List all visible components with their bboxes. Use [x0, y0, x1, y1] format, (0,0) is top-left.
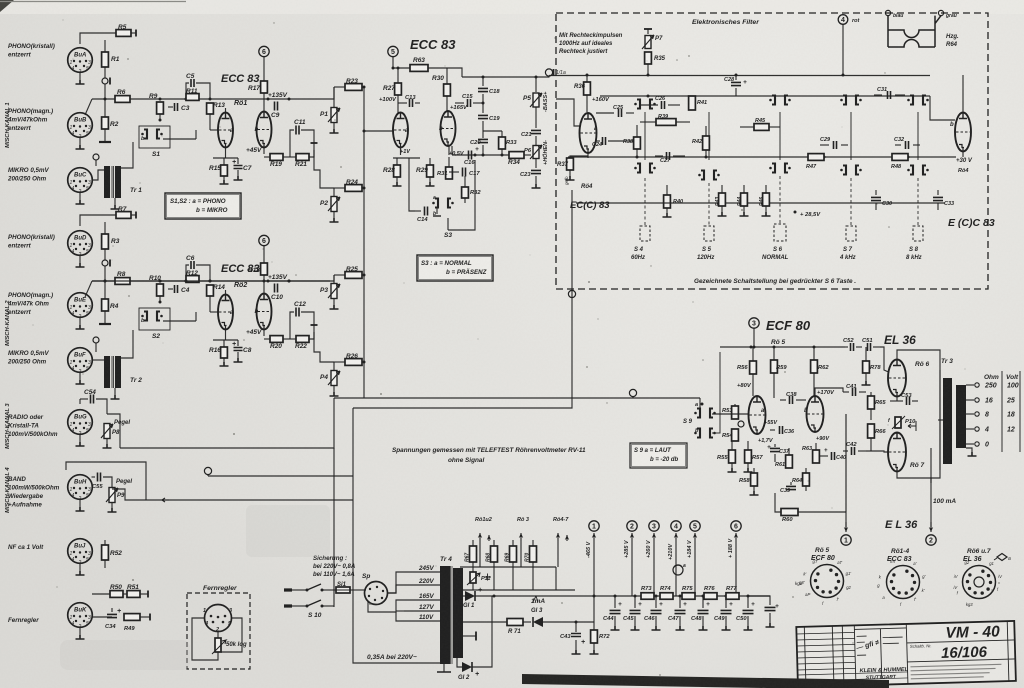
resistor R49: [124, 614, 140, 621]
heater resistors R67-R70: [472, 540, 474, 546]
bottom black bar: [522, 674, 889, 688]
resistor R55: [731, 441, 733, 450]
wire ch1 line to P1: [330, 87, 334, 99]
resistor R38: [634, 137, 641, 149]
EL36 upper tube: [888, 360, 906, 397]
wire S10 drop: [333, 448, 335, 607]
ground of BuA: [79, 72, 81, 81]
capacitor C30: [875, 190, 877, 195]
connector shield node ch2: [93, 337, 99, 343]
resistor R24: [334, 187, 345, 189]
resistor R60: [781, 509, 798, 516]
switch S6 dashed box: [774, 224, 786, 241]
wire ch2 C12 to P4: [314, 332, 334, 362]
half winding stub: [461, 635, 476, 637]
potentiometer P3: [333, 275, 335, 283]
ground of BuH: [79, 499, 81, 508]
supply arrow 5: [388, 46, 398, 56]
capacitor C42: [843, 450, 848, 452]
switch S2 box: [139, 308, 170, 330]
resistor R46: [765, 185, 767, 193]
anode tube a wire ch2: [225, 290, 227, 294]
main B+ rail: [475, 595, 770, 597]
filter rail upper partial: [600, 95, 930, 97]
wire vertical x353: [352, 408, 354, 500]
wire BuA top feed: [80, 33, 116, 44]
capacitor C19: [482, 94, 484, 113]
wire mixer bus vertical: [363, 87, 365, 398]
capacitor C27: [655, 155, 663, 157]
resistor R52: [104, 540, 106, 545]
wire corner to P8 radio: [120, 398, 334, 448]
resistor R78: [865, 347, 867, 361]
transformer Tr3 primary: [943, 378, 952, 464]
connector BuC: [68, 168, 93, 193]
resistor R44: [743, 185, 745, 193]
cathode chain tube b ch2: [263, 329, 265, 336]
capacitor C28: [735, 75, 737, 80]
filter top bus: [549, 75, 930, 77]
wire main signal line y398: [334, 397, 700, 399]
wires EL36 to Tr3: [897, 350, 940, 370]
node test point band: [204, 467, 211, 474]
capacitor C39: [790, 482, 792, 485]
switch contact circle: [102, 260, 108, 266]
filter grid entry: [556, 99, 580, 126]
legend box S9: [630, 443, 687, 468]
resistor R6: [115, 96, 130, 103]
filter column verticals: [644, 112, 646, 160]
transformer Tr3 secondary: [956, 385, 966, 448]
node test point on line: [629, 389, 636, 396]
wire channel 1 main line: [92, 98, 330, 100]
legend box S3: [417, 255, 493, 281]
resistor R1: [104, 40, 106, 52]
capacitor C21: [535, 107, 537, 128]
ground of BuC: [79, 192, 81, 201]
triode a tone: [393, 113, 408, 148]
connector BuE: [68, 293, 93, 318]
switch pair S8 upper: [910, 96, 913, 105]
capacitor C11: [290, 130, 294, 157]
resistor R13: [207, 103, 214, 114]
triode b of ECC83 ch1: [257, 112, 272, 148]
resistor R7: [116, 212, 131, 219]
heater bus lower: [456, 589, 575, 591]
resistor 50k log: [217, 632, 219, 639]
vertical feed 1: [593, 533, 595, 622]
capacitor C15: [455, 102, 457, 104]
switch S7 dashed box: [846, 226, 856, 241]
connector BuH: [68, 475, 93, 500]
capacitor C36: [770, 429, 775, 431]
anode coupling top line: [447, 68, 462, 77]
connector BuD: [68, 231, 93, 256]
resistor R59: [773, 347, 775, 360]
wire BuA' top feed: [80, 215, 116, 226]
resistor R57: [747, 441, 749, 450]
resistor R22: [296, 336, 309, 343]
potentiometer P9 Pegel: [109, 488, 115, 503]
resistor R9: [157, 102, 164, 114]
filter tube b: [955, 113, 971, 152]
resistor R51: [123, 593, 127, 595]
connector BuB: [68, 113, 93, 138]
triode b tone: [441, 111, 456, 146]
capacitor C5: [186, 83, 189, 99]
wire P9 to node: [112, 489, 151, 500]
resistor R53: [734, 404, 736, 406]
wire mains drop: [353, 500, 442, 663]
dashed drop to S5: [708, 183, 710, 226]
capacitor column C18: [482, 77, 484, 86]
switch pair S5 lower: [701, 171, 704, 180]
wire EL36 lower grid: [866, 451, 889, 452]
pentode ECF80: [807, 396, 824, 432]
switch S5 dashed box: [704, 226, 714, 241]
transformer Tr4 windings: [440, 566, 450, 664]
switch pair S8 lower: [910, 166, 913, 175]
resistor R23: [334, 86, 345, 88]
wire cathode b to tone pots: [451, 146, 453, 155]
capacitor C33: [937, 190, 939, 195]
resistor R29: [429, 158, 431, 165]
photocopy blotch: [246, 505, 330, 557]
resistor R12: [186, 276, 199, 283]
capacitor C9: [275, 102, 278, 111]
wire ch2 line to P3: [92, 275, 334, 281]
resistor R37: [587, 153, 589, 158]
node 1/1a output: [545, 69, 552, 76]
capacitor C31: [874, 94, 882, 96]
resistor R47: [808, 154, 824, 161]
resistor R14: [207, 285, 214, 296]
capacitor C41: [843, 391, 849, 393]
connector BuG: [68, 410, 93, 435]
connector Fernregler DIN: [205, 605, 232, 632]
switch pair S6 lower: [772, 164, 775, 173]
vertical feed 3: [653, 533, 655, 596]
resistor R3: [104, 222, 106, 234]
resistor R10: [157, 284, 164, 296]
capacitor C24: [596, 140, 600, 142]
resistor R58: [753, 468, 755, 473]
capacitor C34: [111, 608, 113, 612]
resistor R61: [788, 448, 790, 455]
vertical feed 4: [675, 533, 677, 596]
wire Gl2 riser: [472, 596, 492, 667]
capacitor C12: [290, 312, 294, 339]
dashed drop to S7: [850, 178, 852, 226]
resistor R43: [721, 185, 723, 193]
resistor R72: [593, 622, 595, 630]
wire 100mA feed: [930, 478, 932, 483]
dashed box Elektronisches Filter: [556, 13, 988, 289]
resistor R5: [116, 30, 131, 37]
resistor R31: [448, 146, 450, 155]
capacitor C43: [575, 622, 577, 632]
triode ECF80: [749, 396, 766, 434]
resistor R48: [892, 154, 908, 161]
resistor R62: [813, 347, 815, 360]
capacitor C17: [449, 171, 459, 173]
capacitor C40: [820, 455, 828, 457]
anode cap symbol: [673, 565, 683, 575]
triode a of ECC83 ch2: [218, 295, 233, 330]
rectifier Gl2: [457, 658, 462, 667]
capacitor C6: [186, 265, 189, 281]
resistor R45: [754, 124, 769, 131]
wire band box outline: [66, 462, 146, 500]
capacitor C10: [275, 284, 278, 293]
grid line tone a: [364, 130, 393, 132]
anode cap diamond: [997, 554, 1007, 561]
ground of BuB: [79, 137, 81, 146]
capacitor C25: [596, 112, 614, 114]
resistor R36: [586, 75, 588, 82]
wire lower feed y500: [151, 499, 353, 501]
wire ch1 C11 to P2: [314, 150, 334, 188]
wire grid tube a ch1: [210, 129, 218, 131]
anode resistor R18: [259, 235, 269, 245]
resistor R54: [732, 429, 739, 441]
switch pair S6 upper: [772, 96, 775, 105]
node test point gelb wire: [568, 290, 575, 297]
wire S3 to C16 loop: [448, 160, 475, 230]
last cap C50b: [748, 596, 770, 605]
capacitor C51: [868, 343, 871, 351]
wires Sp to taps: [388, 572, 405, 593]
wire tube b to rail: [962, 152, 964, 157]
photocopy noise overlay: [0, 0, 1, 1]
title block fine print: [910, 664, 1001, 667]
switch pair S7 upper: [843, 96, 846, 105]
capacitor C4: [168, 288, 173, 290]
output stage frame: [712, 352, 720, 433]
resistor R39: [656, 119, 676, 126]
resistor R65: [870, 392, 872, 396]
switch S4 dashed box: [640, 226, 650, 241]
capacitor C22: [535, 159, 537, 168]
potentiometer P6 HOEHEN: [533, 146, 539, 159]
output taps: [966, 384, 974, 386]
rectifier Gl3: [533, 617, 543, 627]
capacitor C20: [482, 121, 484, 138]
switch pair S7 lower: [843, 166, 846, 175]
connector BuJ: [68, 539, 93, 564]
resistor R20: [270, 336, 283, 343]
dashed box Fernregler: [187, 593, 250, 669]
potentiometer P4: [333, 362, 335, 370]
resistor R41: [689, 96, 696, 110]
wire S1 to grid: [163, 138, 196, 140]
resistor R27: [397, 68, 399, 83]
capacitor C52: [845, 346, 848, 348]
filter tube a EC(C)83: [580, 113, 597, 153]
rail resistors R73-R77: [641, 593, 654, 600]
capacitor C53: [896, 397, 898, 402]
capacitor C37: [774, 444, 776, 447]
resistor R21: [296, 154, 309, 161]
resistor R4: [104, 281, 106, 299]
vertical feed 6: [735, 533, 737, 596]
scan speckles: [334, 119, 336, 121]
switch S1 box: [139, 126, 170, 148]
capacitor C38: [780, 399, 786, 401]
capacitor C3: [168, 106, 173, 108]
wire S2 to grid: [163, 320, 196, 322]
mains input stubs: [284, 590, 292, 606]
legend box S1 S2: [165, 193, 241, 219]
potentiometer P8 Regel: [104, 424, 110, 439]
resistor R25: [334, 274, 345, 276]
wire line y408 to filter gelb: [353, 190, 572, 408]
wire band feed y476: [208, 475, 353, 477]
connector shield node ch1: [93, 154, 99, 160]
resistor R64: [805, 468, 807, 473]
resistor R2: [104, 99, 106, 117]
potentiometer P10: [895, 417, 901, 428]
capacitor C29: [820, 144, 829, 146]
resistor R19: [270, 154, 283, 161]
cathode resistor R16: [225, 330, 227, 340]
supply arrow 3: [749, 318, 759, 328]
wire fernregler loop: [192, 618, 218, 660]
ground of BuK: [79, 627, 81, 636]
dashed drop to S6: [779, 176, 781, 224]
capacitor C55: [92, 476, 96, 478]
small arrow mark: [162, 498, 169, 502]
resistor R66: [868, 424, 875, 438]
anode resistor R17: [259, 46, 269, 56]
resistor R40: [666, 185, 668, 195]
switch contact circle: [102, 78, 108, 84]
potentiometer P5 BASS: [535, 77, 537, 92]
cathode capacitor C8: [237, 340, 239, 346]
output ground: [966, 448, 972, 452]
cathode chain tube b ch1: [263, 147, 265, 154]
switch S10: [292, 589, 307, 591]
supply arrow 1 down: [845, 414, 847, 530]
transformer Tr1: [104, 166, 110, 198]
resistor R63 output: [815, 443, 817, 450]
heater Hzg R64 winding: [888, 16, 941, 47]
anode tube a wire ch1: [225, 108, 227, 112]
connector BuA: [68, 48, 93, 73]
wire S9 to grid: [712, 413, 748, 415]
capacitor C16: [469, 151, 472, 160]
resistor R50: [110, 591, 123, 598]
potentiometer P1: [333, 87, 335, 107]
ground of BuG: [79, 434, 81, 443]
node rot supply 4: [838, 15, 848, 25]
rectifier Gl1: [461, 595, 465, 597]
EL36 lower tube: [888, 433, 906, 472]
dashed drop to S4: [644, 178, 646, 226]
resistor R30: [446, 68, 448, 84]
transformer Tr2: [104, 356, 110, 388]
potentiometer P11: [470, 572, 476, 583]
wire grid tube a ch2: [210, 311, 218, 313]
scan corner mark top-left: [0, 0, 14, 12]
filter rail low: [576, 202, 945, 204]
connector BuF: [68, 348, 93, 373]
supply arrow 2 down: [930, 448, 932, 530]
resistor R34: [509, 152, 524, 159]
switch S9 contacts: [697, 409, 700, 418]
capacitor C32: [895, 144, 901, 146]
cathode resistor R15: [225, 148, 227, 158]
resistor R35: [645, 52, 652, 64]
triode b of ECC83 ch2: [257, 294, 272, 330]
ground of BuJ: [79, 563, 81, 572]
filter rail mid: [568, 156, 956, 158]
resistor R33: [501, 131, 503, 137]
wire channel 2 main line: [92, 280, 330, 282]
heater bus upper: [460, 566, 556, 568]
capacitor C26: [640, 104, 658, 106]
potentiometer P7: [644, 28, 652, 30]
ground of BuE: [79, 317, 81, 326]
vertical feed 5: [694, 533, 696, 596]
ground of BuD: [79, 255, 81, 264]
wire pentode anode to C41: [815, 388, 843, 396]
triode a of ECC83 ch1: [218, 113, 233, 148]
cathode capacitor C7: [237, 158, 239, 164]
resistor R71: [461, 621, 507, 623]
resistor R26: [334, 361, 345, 363]
title block: [796, 621, 1016, 687]
resistor R11: [186, 94, 199, 101]
capacitor C13: [398, 102, 407, 104]
dashed drop to S8: [917, 178, 919, 226]
resistor R32: [464, 176, 466, 187]
capacitor C54: [79, 399, 81, 404]
primary taps: [404, 571, 441, 573]
vertical feed 2: [631, 533, 633, 596]
switch pair S4 upper: [637, 100, 640, 109]
switch pair S4 lower: [637, 164, 640, 173]
wire P8 to bus: [107, 414, 120, 448]
switch S3 contacts: [435, 199, 438, 208]
connector BuK: [68, 603, 93, 628]
switch S8 dashed box: [913, 226, 923, 241]
capacitor C14: [415, 210, 421, 212]
filter caps row C44-C50: [614, 596, 616, 608]
wire top line to node: [462, 76, 549, 78]
resistor R56: [752, 347, 754, 361]
cathode R28: [400, 148, 402, 156]
heater terminals blau grau: [885, 10, 890, 15]
wire EL36 upper grid: [880, 347, 889, 372]
output stage top rail: [720, 346, 845, 348]
resistor R42: [703, 136, 710, 150]
ground of BuF: [79, 372, 81, 381]
resistor R8: [115, 278, 130, 285]
potentiometer P2: [333, 188, 335, 196]
node small circle: [738, 421, 744, 427]
wire tube b grid: [930, 96, 955, 120]
